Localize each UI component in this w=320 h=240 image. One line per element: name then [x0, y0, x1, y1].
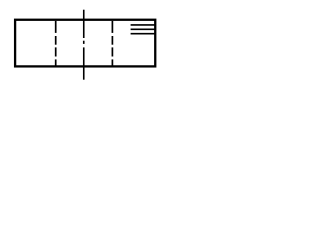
thread lines top-right: [131, 25, 156, 34]
hidden line left (dashed): [55, 21, 57, 66]
centerline (chain line): [83, 10, 85, 80]
part outline rectangle: [15, 20, 155, 67]
hidden line right (dashed): [111, 21, 113, 66]
background: [0, 0, 177, 89]
